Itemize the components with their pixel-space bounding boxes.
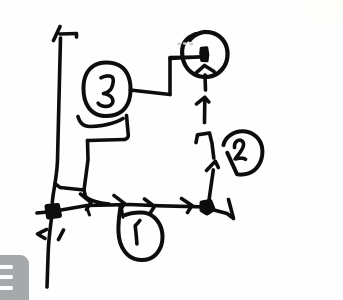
- faint cream blob top-right: [308, 0, 343, 20]
- axis tick chevron 3: [145, 199, 155, 213]
- arrow 2 head: [197, 97, 209, 104]
- top circle dot: [201, 48, 208, 61]
- circle 1: [118, 207, 162, 261]
- caret head lower: [207, 161, 219, 170]
- right tick below origin: [59, 230, 64, 240]
- top circle: [182, 32, 227, 77]
- gray menu button: [0, 255, 29, 300]
- caret inside top circle: [196, 66, 214, 74]
- digit 2: [234, 140, 245, 159]
- menu bar 3: [0, 286, 13, 290]
- axis tick chevron 2: [114, 196, 125, 211]
- x-axis: [37, 205, 201, 214]
- shaft from right dot up: [209, 170, 214, 204]
- axis tick chevron 4: [182, 199, 193, 213]
- faint pen dots: [179, 42, 193, 45]
- y-axis shaft: [47, 38, 61, 287]
- origin dot: [47, 206, 60, 218]
- y-axis arrowhead: [54, 27, 61, 41]
- staircase bottom horizontal: [55, 184, 84, 191]
- tick at tail end: [229, 200, 234, 219]
- line into top dot: [170, 55, 199, 59]
- tail after right dot: [212, 210, 233, 219]
- digit 3: [98, 76, 113, 107]
- staircase tail to axis: [86, 197, 110, 205]
- axis tick chevron 1: [81, 194, 92, 210]
- stub below caret: [203, 75, 207, 90]
- arrow 2 shaft: [203, 98, 207, 123]
- riser vertical: [168, 59, 172, 95]
- circle 3: [83, 63, 130, 117]
- right dot: [202, 202, 213, 214]
- zigzag arrow head: [196, 133, 214, 158]
- riser top horizontal: [170, 57, 199, 59]
- menu bar 1: [0, 265, 13, 269]
- staircase mid horizontal: [88, 140, 125, 141]
- circle 2: [224, 131, 263, 174]
- line circle3 to riser: [130, 90, 170, 95]
- staircase vertical 1: [84, 141, 88, 197]
- staircase vertical 2: [124, 116, 128, 140]
- digit 1: [135, 221, 140, 244]
- menu bar 2: [0, 275, 13, 279]
- left mark below origin: [38, 230, 47, 239]
- curve under circle 3: [78, 117, 123, 127]
